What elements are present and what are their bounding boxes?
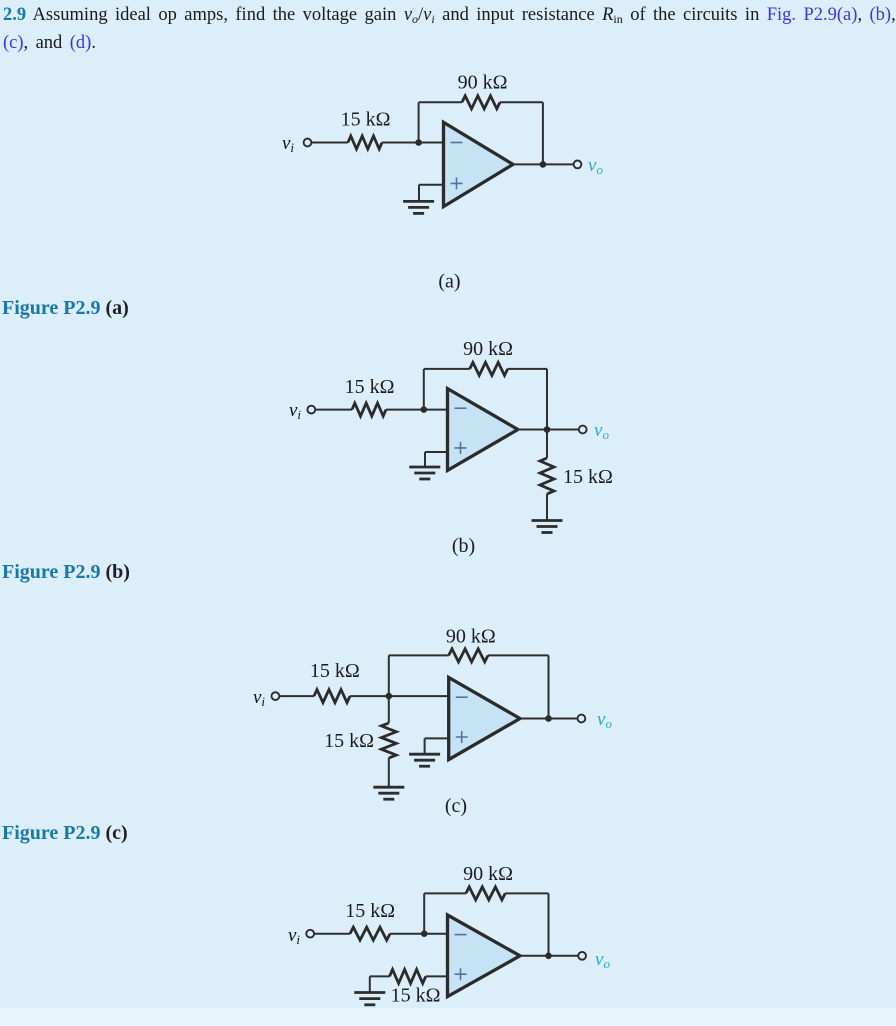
wire (548, 655, 550, 718)
problem statement text (3, 1, 896, 57)
resistor R1 15 kΩ (a) input (348, 136, 382, 149)
wire (388, 696, 390, 723)
svg-text:vo: vo (594, 420, 609, 442)
wire (423, 369, 425, 410)
svg-text:90 kΩ: 90 kΩ (463, 863, 513, 885)
wire (546, 369, 548, 430)
wire (350, 695, 449, 697)
terminal vo (a) (574, 161, 582, 169)
svg-text:(b): (b) (452, 535, 475, 557)
svg-text:15 kΩ: 15 kΩ (341, 109, 391, 131)
svg-text:15 kΩ: 15 kΩ (563, 466, 613, 488)
wire (426, 975, 448, 977)
svg-text:vi: vi (253, 687, 265, 709)
resistor R2 90 kΩ (c) feedback (449, 649, 488, 662)
terminal vo (d) (578, 952, 586, 960)
svg-text:90 kΩ: 90 kΩ (446, 626, 496, 648)
svg-text:90 kΩ: 90 kΩ (463, 338, 513, 360)
svg-text:(a): (a) (438, 271, 460, 293)
wire (382, 142, 444, 144)
ground (d) at non-inverting resistor (354, 993, 385, 1005)
wire (505, 892, 548, 894)
svg-text:vo: vo (595, 949, 610, 971)
svg-text:vo: vo (597, 709, 612, 731)
wire (370, 975, 390, 977)
wire (418, 185, 420, 202)
wire (418, 102, 420, 142)
terminal vo (b) (579, 426, 587, 434)
figure label: Figure P2.9 (b) (2, 561, 130, 584)
ground (a) at non-inverting input (403, 201, 434, 213)
wire (386, 409, 448, 411)
svg-text:(c): (c) (445, 795, 467, 817)
svg-text:15 kΩ: 15 kΩ (310, 660, 360, 682)
op-amp A2 non-inverting input label (plus) (455, 442, 467, 454)
op-amp A2 (448, 389, 518, 471)
svg-text:15 kΩ: 15 kΩ (345, 376, 395, 398)
op-amp A4 (448, 915, 521, 997)
resistor R1 15 kΩ (b) input (352, 403, 386, 416)
svg-text:15 kΩ: 15 kΩ (345, 900, 395, 922)
wire (311, 142, 348, 144)
op-amp A3 (449, 678, 520, 760)
svg-text:vo: vo (588, 155, 603, 177)
resistor R3 15 kΩ (d) at non-inverting input (390, 969, 426, 983)
op-amp A2 inverting input label (minus) (455, 407, 467, 409)
wire (424, 452, 426, 467)
node: inverting input junction (a) (415, 139, 422, 146)
svg-text:vi: vi (288, 925, 300, 947)
node: output junction (c) (545, 715, 552, 722)
node: output junction (d) (545, 953, 552, 960)
wire (390, 933, 448, 935)
wire (424, 892, 466, 894)
wire (369, 976, 371, 992)
wire (520, 955, 579, 957)
node: output junction (a) (540, 161, 547, 168)
figure label: Figure P2.9 (c) (2, 822, 128, 845)
terminal vi (c) (272, 692, 280, 700)
wire (423, 893, 425, 933)
ground (c) below R3 (373, 787, 404, 799)
resistor R2 90 kΩ (a) feedback (462, 96, 500, 109)
op-amp A3 non-inverting input label (plus) (456, 731, 468, 743)
wire (500, 101, 543, 103)
wire (388, 758, 390, 787)
wire (548, 893, 550, 955)
terminal vi (b) (307, 406, 315, 414)
svg-text:vi: vi (282, 133, 294, 155)
node: output junction (b) (544, 426, 551, 433)
op-amp A1 (444, 122, 514, 206)
wire (314, 933, 350, 935)
wire (513, 163, 574, 165)
wire (425, 451, 448, 453)
terminal vi (d) (306, 930, 314, 938)
wire (419, 184, 444, 186)
wire (520, 718, 578, 720)
op-amp A4 non-inverting input label (plus) (455, 968, 467, 980)
terminal vi (a) (304, 139, 312, 147)
wire (424, 368, 470, 370)
resistor R1 15 kΩ (c) input (314, 690, 350, 703)
wire (279, 695, 314, 697)
ground (b) at non-inverting input (409, 467, 440, 479)
wire (518, 429, 579, 431)
svg-text:15 kΩ: 15 kΩ (391, 985, 441, 1007)
wire (425, 737, 449, 739)
wire (389, 654, 449, 656)
resistor R1 15 kΩ (d) input (350, 927, 390, 940)
resistor R3 15 kΩ (c) from inverting node to ground (381, 723, 396, 758)
wire (419, 101, 462, 103)
node: inverting input junction (c) (386, 693, 393, 700)
wire (424, 738, 426, 754)
wire (546, 494, 548, 521)
ground (b) below load resistor (532, 521, 563, 533)
ground (c) at non-inverting input (409, 754, 440, 766)
node: inverting input junction (b) (421, 406, 428, 413)
wire (488, 654, 549, 656)
terminal vo (c) (578, 715, 586, 723)
wire (315, 409, 352, 411)
op-amp A3 inverting input label (minus) (456, 696, 468, 698)
resistor R3 15 kΩ (b) load to ground (540, 458, 554, 494)
op-amp A4 inverting input label (minus) (455, 934, 467, 936)
resistor R2 90 kΩ (b) feedback (470, 362, 508, 375)
op-amp A1 non-inverting input label (plus) (451, 177, 463, 189)
wire (508, 368, 547, 370)
wire (542, 102, 544, 164)
op-amp A1 inverting input label (minus) (451, 142, 463, 144)
bottom lighter strip (0, 1008, 896, 1026)
wire (388, 655, 390, 696)
svg-text:15 kΩ: 15 kΩ (324, 730, 374, 752)
svg-text:vi: vi (289, 400, 301, 422)
resistor R2 90 kΩ (d) feedback (466, 887, 505, 900)
wire (546, 430, 548, 459)
node: inverting input junction (d) (421, 930, 428, 937)
svg-text:90 kΩ: 90 kΩ (458, 72, 508, 94)
figure label: Figure P2.9 (a) (2, 297, 129, 320)
